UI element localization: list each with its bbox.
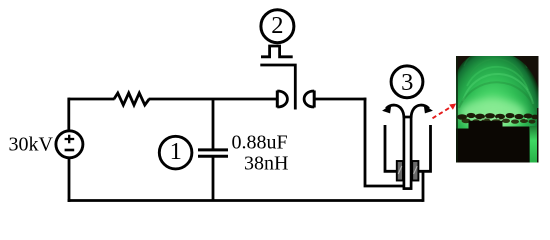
wire right top segment: [314, 98, 366, 101]
resistor: [114, 93, 149, 105]
svg-text:30kV: 30kV: [9, 134, 54, 156]
inner electrode tube: [404, 117, 411, 189]
capacitor C 0.88uF top lead: [212, 99, 215, 150]
outer electrode right wall: [419, 125, 432, 202]
switch 2 circle label: [261, 10, 294, 43]
droplet band: [457, 113, 539, 120]
capacitor C bottom lead: [212, 156, 215, 200]
spark gap left electrode: [277, 91, 287, 108]
wire left vertical top: [67, 98, 70, 131]
trigger pulse symbol: [261, 46, 293, 57]
svg-text:1: 1: [170, 138, 182, 165]
svg-text:0.88uF: 0.88uF: [232, 132, 288, 154]
insulator right: [412, 161, 418, 181]
wire top bus left segment: [69, 98, 115, 101]
outer electrode left wall: [384, 125, 398, 171]
wire left vertical bottom: [68, 157, 71, 202]
voltage source V1 30kV: [56, 131, 83, 158]
dark top corners: [456, 56, 471, 76]
plasma flow arrow left: [383, 105, 404, 118]
red dashed arrow to photo: [433, 104, 457, 119]
electrode silhouette: [456, 121, 530, 163]
wire inner electrode lead: [365, 98, 404, 186]
capacitor C plates: [198, 150, 228, 156]
svg-text:3: 3: [401, 69, 413, 96]
plasma flow arrow right: [411, 105, 432, 118]
svg-text:2: 2: [271, 12, 283, 39]
plasma gun 3 circle label: [391, 66, 423, 98]
trigger electrode lead: [260, 65, 295, 110]
photo of plasma plume: [450, 45, 545, 165]
spark gap right electrode: [304, 91, 314, 108]
insulator left: [397, 161, 403, 181]
wire top bus middle segment: [149, 98, 277, 101]
wire bottom bus: [68, 199, 423, 202]
svg-text:38nH: 38nH: [244, 153, 288, 175]
node 1 circle label: [159, 136, 192, 169]
